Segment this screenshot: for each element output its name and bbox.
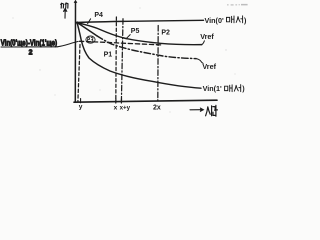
- scan specks: [12, 17, 13, 18]
- curve L3 Vref lower solid start: [77, 23, 97, 36]
- svg-text:): ): [244, 16, 247, 25]
- fan knot: [76, 21, 79, 24]
- hangul glyph 서: [234, 85, 240, 92]
- curve L3 Vref lower dash-dot: [97, 36, 196, 59]
- hangul glyph 메: [227, 16, 235, 23]
- curve L4 Vin(1) steep: [77, 23, 201, 89]
- curve L1 Vin(0) top line: [77, 20, 204, 22]
- tick x+y on axis: [120, 99, 122, 103]
- svg-text:P5: P5: [131, 28, 140, 35]
- svg-text:2x: 2x: [153, 105, 161, 112]
- dash-dot vertical at x+y: [121, 19, 123, 102]
- dash-dot vertical at 2x: [157, 26, 159, 101]
- P3 label: [88, 38, 93, 42]
- svg-text:Vin(0'ще)-Vin(1'ще): Vin(0'ще)-Vin(1'ще): [1, 38, 58, 48]
- P3 circle: [86, 36, 95, 43]
- L2 end tick: [202, 41, 205, 45]
- fraction bar: [1, 46, 58, 48]
- tick x on axis: [115, 99, 117, 103]
- P5 tick on L2: [126, 35, 130, 39]
- dashed horizontal level line: [80, 41, 162, 45]
- curve L2 Vref upper solid: [77, 23, 202, 45]
- svg-text:Vin(0': Vin(0': [205, 16, 224, 25]
- svg-text:x: x: [114, 105, 118, 112]
- hangul 시간 (time): [206, 106, 212, 116]
- up arrow under annotation: [64, 10, 66, 18]
- y-axis: [74, 2, 76, 103]
- dashed vertical at x: [115, 17, 118, 102]
- svg-text:P1: P1: [104, 52, 113, 59]
- svg-text:Vin(1': Vin(1': [203, 84, 222, 93]
- dashed vertical at y: [78, 45, 80, 102]
- svg-text:y: y: [79, 104, 83, 111]
- svg-text:2: 2: [29, 49, 33, 56]
- voltage annotation glyphs top-left: [61, 3, 68, 8]
- x-axis: [74, 100, 217, 102]
- svg-text:P4: P4: [94, 12, 103, 19]
- svg-text:x+y: x+y: [120, 105, 131, 112]
- y-axis arrowhead: [74, 0, 77, 2]
- time axis arrow bottom right: [190, 105, 217, 116]
- svg-text:Vref: Vref: [200, 32, 214, 41]
- tick y on axis: [80, 99, 82, 103]
- hangul glyph 메: [225, 85, 233, 92]
- svg-text:): ): [242, 84, 245, 93]
- L3 end flick: [196, 59, 203, 64]
- hangul glyph 서: [236, 16, 242, 23]
- P4 tick on L1: [88, 19, 91, 24]
- svg-text:P2: P2: [161, 29, 170, 36]
- svg-text:Vref: Vref: [202, 62, 216, 71]
- pointer from fraction to axis: [58, 41, 78, 46]
